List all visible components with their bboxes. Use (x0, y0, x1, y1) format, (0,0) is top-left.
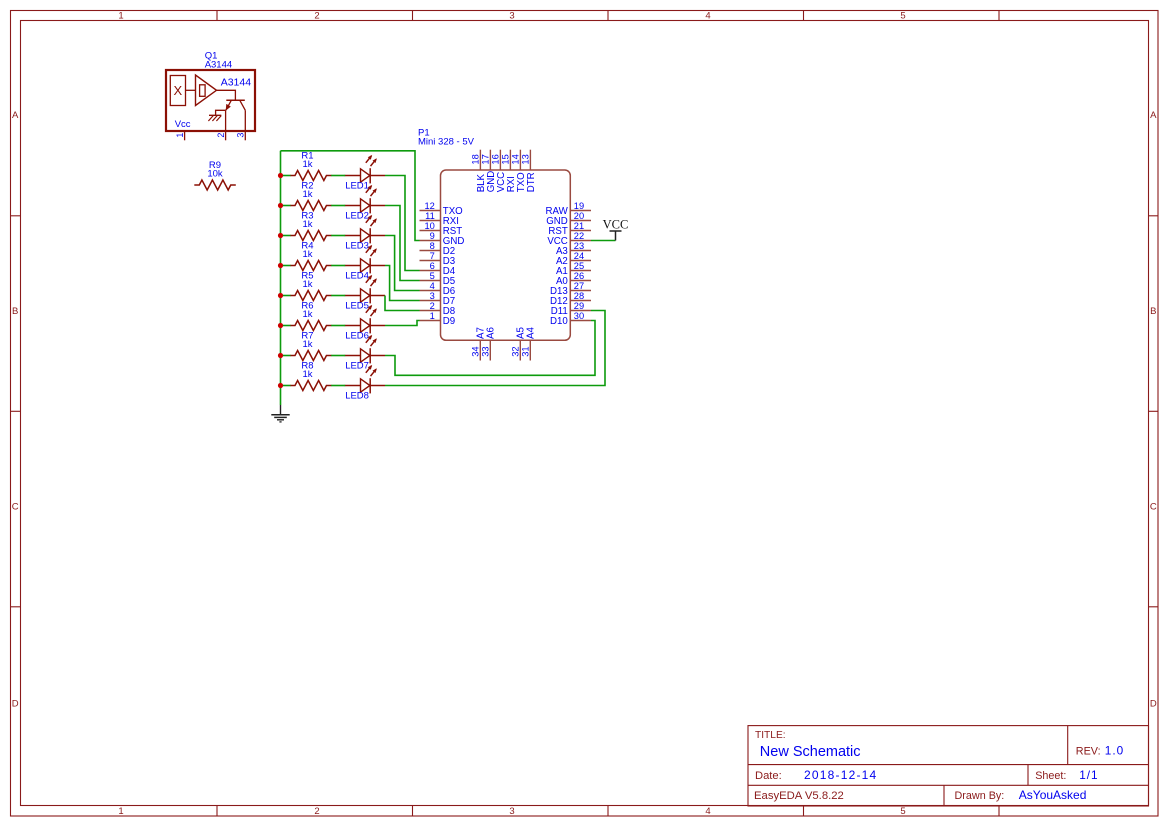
resistor R5 (290, 271, 332, 301)
svg-text:1.0: 1.0 (1105, 743, 1124, 757)
svg-text:30: 30 (574, 311, 584, 321)
svg-text:7: 7 (430, 251, 435, 261)
svg-text:25: 25 (574, 261, 584, 271)
P1 pin 9 (GND) (420, 240, 441, 242)
P1 pin 17 (GND) (489, 150, 491, 170)
P1 pin 16 (VCC) (499, 150, 501, 170)
P1 pin 8 (D2) (420, 250, 441, 252)
P1 pin 2 (D8) (420, 310, 441, 312)
svg-text:1k: 1k (302, 189, 312, 200)
svg-text:1: 1 (118, 11, 123, 22)
wire R3 to LED3 (331, 235, 345, 237)
P1 pin 3 (D7) (420, 300, 441, 302)
svg-text:32: 32 (511, 346, 521, 356)
wire bus to R7 (281, 355, 291, 357)
wire LED8 to P1 D11 (385, 311, 605, 386)
wire common bus to P1 GND pin 9 (281, 151, 420, 241)
svg-text:22: 22 (574, 231, 584, 241)
net flag VCC (603, 217, 629, 240)
wire R6 to LED6 (331, 325, 345, 327)
P1 pin 13 (DTR) (529, 150, 531, 170)
LED LED5 (345, 275, 385, 311)
IC P1 (Mini 328 - 5V) (418, 127, 591, 360)
title block (748, 726, 1149, 806)
resistor R6 (290, 301, 332, 331)
junction bus/R3 (278, 233, 283, 238)
wire bus to R1 (281, 175, 291, 177)
LED LED6 (345, 305, 385, 341)
P1 pin 27 (D13) (570, 290, 591, 292)
svg-text:1k: 1k (302, 219, 312, 230)
svg-text:EasyEDA V5.8.22: EasyEDA V5.8.22 (754, 790, 844, 802)
resistor R7 (290, 331, 332, 361)
wire bus to R6 (281, 325, 291, 327)
Q1 pin 2 (225, 110, 227, 140)
svg-text:LED7: LED7 (345, 360, 369, 371)
svg-text:1k: 1k (302, 249, 312, 260)
svg-text:5: 5 (900, 11, 905, 22)
svg-text:1: 1 (175, 133, 185, 138)
P1 pin 20 (GND) (570, 220, 591, 222)
svg-text:A: A (12, 110, 19, 121)
svg-text:B: B (12, 306, 18, 317)
P1 pin 7 (D3) (420, 260, 441, 262)
svg-text:1: 1 (118, 806, 123, 817)
svg-text:24: 24 (574, 251, 584, 261)
P1 pin 25 (A1) (570, 270, 591, 272)
svg-text:21: 21 (574, 221, 584, 231)
svg-text:A3144: A3144 (205, 59, 232, 70)
LED LED2 (345, 185, 385, 221)
wire LED6 to P1 D9 (385, 321, 420, 326)
P1 pin 14 (TXO) (519, 150, 521, 170)
svg-text:1k: 1k (302, 279, 312, 290)
wire R8 to LED8 (331, 385, 345, 387)
svg-text:1k: 1k (302, 369, 312, 380)
wire R7 to LED7 (331, 355, 345, 357)
junction bus/R2 (278, 203, 283, 208)
svg-text:5: 5 (430, 271, 435, 281)
svg-text:C: C (1150, 501, 1157, 512)
wire LED5 to P1 D8 (385, 296, 420, 311)
svg-text:3: 3 (509, 806, 514, 817)
svg-text:TITLE:: TITLE: (755, 730, 786, 741)
svg-text:29: 29 (574, 301, 584, 311)
resistor R8 (290, 361, 332, 391)
resistor R9 (194, 160, 236, 190)
resistor R2 (290, 181, 332, 211)
P1 pin 21 (RST) (570, 230, 591, 232)
wire LED3 to P1 D6 (385, 236, 420, 291)
Q1 pin 1 (184, 131, 186, 140)
wire R2 to LED2 (331, 205, 345, 207)
junction bus/R5 (278, 293, 283, 298)
P1 pin 18 (BLK) (479, 150, 481, 170)
wire LED1 to P1 D4 (385, 176, 420, 271)
svg-text:1: 1 (430, 311, 435, 321)
P1 pin 32 (A5) (519, 340, 521, 360)
svg-text:AsYouAsked: AsYouAsked (1019, 788, 1087, 802)
LED LED3 (345, 215, 385, 251)
svg-text:D: D (12, 699, 19, 710)
svg-text:11: 11 (425, 211, 435, 221)
svg-text:LED8: LED8 (345, 390, 369, 401)
svg-text:D9: D9 (443, 316, 455, 327)
P1 pin 19 (RAW) (570, 210, 591, 212)
svg-text:2: 2 (430, 301, 435, 311)
junction bus/R4 (278, 263, 283, 268)
wire bus to R3 (281, 235, 291, 237)
svg-text:1k: 1k (302, 159, 312, 170)
junction bus/R6 (278, 323, 283, 328)
wire bus to R2 (281, 205, 291, 207)
svg-text:4: 4 (705, 806, 710, 817)
wire R1 to LED1 (331, 175, 345, 177)
LED LED1 (345, 155, 385, 191)
svg-text:3: 3 (509, 11, 514, 22)
svg-text:D10: D10 (550, 316, 568, 327)
junction bus/R8 (278, 383, 283, 388)
svg-text:2018-12-14: 2018-12-14 (804, 768, 877, 782)
P1 pin 23 (A3) (570, 250, 591, 252)
P1 pin 6 (D4) (420, 270, 441, 272)
P1 pin 1 (D9) (420, 320, 441, 322)
svg-text:12: 12 (424, 201, 434, 211)
P1 pin 10 (RST) (420, 230, 441, 232)
svg-text:1k: 1k (302, 339, 312, 350)
P1 pin 4 (D6) (420, 290, 441, 292)
svg-text:A6: A6 (486, 327, 497, 339)
svg-text:LED3: LED3 (345, 240, 369, 251)
svg-text:2: 2 (314, 806, 319, 817)
svg-text:A3144: A3144 (221, 77, 252, 89)
svg-text:LED1: LED1 (345, 180, 369, 191)
wire R5 to LED5 (331, 295, 345, 297)
P1 pin 31 (A4) (529, 340, 531, 360)
svg-text:LED4: LED4 (345, 270, 369, 281)
svg-text:2: 2 (216, 133, 226, 138)
svg-text:Sheet:: Sheet: (1035, 770, 1066, 782)
svg-text:2: 2 (314, 11, 319, 22)
svg-text:A: A (1150, 110, 1157, 121)
svg-text:4: 4 (705, 11, 710, 22)
junction bus/R7 (278, 353, 283, 358)
svg-text:16: 16 (491, 154, 501, 164)
P1 pin 26 (A0) (570, 280, 591, 282)
wire P1 VCC pin 22 to VCC flag (591, 240, 616, 242)
wire bus to R8 (281, 385, 291, 387)
svg-text:15: 15 (501, 154, 511, 164)
P1 pin 11 (RXI) (420, 220, 441, 222)
svg-text:20: 20 (574, 211, 584, 221)
svg-text:LED2: LED2 (345, 210, 369, 221)
svg-text:28: 28 (574, 291, 584, 301)
svg-text:A4: A4 (526, 327, 537, 339)
svg-text:1k: 1k (302, 309, 312, 320)
svg-text:23: 23 (574, 241, 584, 251)
P1 pin 30 (D10) (570, 320, 591, 322)
P1 pin 12 (TXO) (420, 210, 441, 212)
wire LED4 to P1 D7 (385, 266, 420, 301)
P1 pin 15 (RXI) (509, 150, 511, 170)
transistor Q1 (A3144 hall-effect sensor) (166, 51, 255, 141)
svg-text:10k: 10k (207, 169, 223, 180)
svg-text:B: B (1150, 306, 1156, 317)
resistor R3 (290, 211, 332, 241)
svg-text:14: 14 (511, 154, 521, 164)
wire R4 to LED4 (331, 265, 345, 267)
svg-text:34: 34 (471, 346, 481, 356)
svg-text:4: 4 (430, 281, 435, 291)
svg-text:33: 33 (481, 346, 491, 356)
svg-text:17: 17 (481, 154, 491, 164)
svg-text:3: 3 (236, 133, 246, 138)
svg-text:D: D (1150, 699, 1157, 710)
Q1 pin 3 (244, 110, 246, 140)
svg-text:VCC: VCC (603, 217, 629, 231)
P1 pin 5 (D5) (420, 280, 441, 282)
svg-text:Mini 328 - 5V: Mini 328 - 5V (418, 136, 475, 147)
svg-text:31: 31 (521, 346, 531, 356)
wire LED2 to P1 D5 (385, 206, 420, 281)
ground (271, 405, 289, 422)
svg-text:Date:: Date: (755, 770, 782, 782)
svg-text:C: C (12, 501, 19, 512)
svg-text:9: 9 (430, 231, 435, 241)
wire resistor common bus (left vertical) (280, 151, 282, 405)
svg-text:1/1: 1/1 (1079, 768, 1098, 782)
svg-text:8: 8 (430, 241, 435, 251)
svg-text:10: 10 (424, 221, 434, 231)
P1 pin 34 (A7) (479, 340, 481, 360)
LED LED8 (345, 365, 385, 401)
svg-text:Drawn By:: Drawn By: (955, 790, 1005, 802)
P1 pin 33 (A6) (489, 340, 491, 360)
svg-text:27: 27 (574, 281, 584, 291)
svg-text:X: X (173, 83, 182, 98)
svg-text:LED6: LED6 (345, 330, 369, 341)
svg-text:REV:: REV: (1076, 745, 1101, 757)
resistor R1 (290, 151, 332, 181)
P1 pin 22 (VCC) (570, 240, 591, 242)
LED LED4 (345, 245, 385, 281)
P1 pin 28 (D12) (570, 300, 591, 302)
svg-text:18: 18 (471, 154, 481, 164)
svg-text:LED5: LED5 (345, 300, 369, 311)
wire bus to R5 (281, 295, 291, 297)
svg-text:6: 6 (430, 261, 435, 271)
svg-text:5: 5 (900, 806, 905, 817)
P1 pin 24 (A2) (570, 260, 591, 262)
svg-text:26: 26 (574, 271, 584, 281)
svg-text:3: 3 (430, 291, 435, 301)
LED LED7 (345, 335, 385, 371)
svg-text:19: 19 (574, 201, 584, 211)
P1 pin 29 (D11) (570, 310, 591, 312)
resistor R4 (290, 241, 332, 271)
wire LED7 to P1 D10 (385, 321, 595, 376)
svg-text:13: 13 (521, 154, 531, 164)
svg-text:DTR: DTR (526, 172, 537, 192)
wire bus to R4 (281, 265, 291, 267)
svg-text:Vcc: Vcc (175, 119, 191, 130)
svg-text:New Schematic: New Schematic (760, 744, 861, 760)
junction bus/R1 (278, 173, 283, 178)
